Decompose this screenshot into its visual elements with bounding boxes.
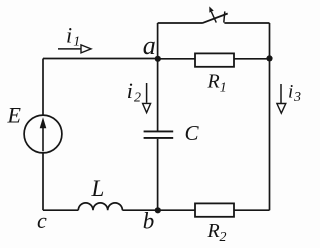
svg-text:L: L [91,176,105,201]
svg-text:2: 2 [134,90,141,105]
switch S blade [202,14,228,24]
switch contact post [224,11,225,22]
wire left vertical lower (source bottom lead) [42,153,44,210]
wire R2 right lead to right corner [234,209,270,211]
resistor R2 [195,203,234,216]
wire node a to R1 left lead [158,58,195,60]
node at right junction dot [266,55,272,61]
wire capacitor top lead from node a [157,59,159,131]
svg-text:i: i [127,78,133,103]
svg-text:1: 1 [73,35,80,50]
switch actuation arrow [209,6,216,22]
capacitor C plates [144,131,174,138]
svg-text:1: 1 [220,80,227,95]
voltage source E arrow [40,117,47,151]
wire left vertical upper (source top lead) [42,59,44,116]
wire bottom left from corner c to inductor [43,209,78,211]
svg-text:i: i [66,23,72,48]
svg-text:E: E [7,103,22,128]
wire inductor to node b to R2 left lead [122,209,195,211]
wire riser node a to switch branch [157,23,159,59]
wire capacitor bottom lead to node b [157,139,159,210]
voltage source E circle [24,115,62,153]
svg-text:C: C [185,121,200,145]
svg-text:R: R [207,71,220,93]
svg-text:a: a [143,31,156,60]
current i3 arrow [277,84,286,113]
wire switch branch left segment [158,22,202,24]
resistor R1 [195,53,234,66]
node b junction dot [155,207,161,213]
wire R1 right lead to right node [234,58,270,60]
wire top horizontal from E branch to node a [43,58,158,60]
svg-text:R: R [207,220,220,242]
inductor L coils [78,203,122,210]
current i2 arrow [143,83,151,113]
wire switch branch right segment [224,22,269,24]
svg-text:c: c [37,208,47,233]
node a junction dot [155,56,161,62]
svg-text:3: 3 [293,90,301,105]
current i1 arrow [58,45,91,53]
wire right vertical branch [269,59,271,211]
svg-text:2: 2 [220,230,227,245]
wire drop right of switch to right node [269,23,271,59]
svg-text:b: b [143,209,155,234]
svg-text:i: i [288,82,293,103]
